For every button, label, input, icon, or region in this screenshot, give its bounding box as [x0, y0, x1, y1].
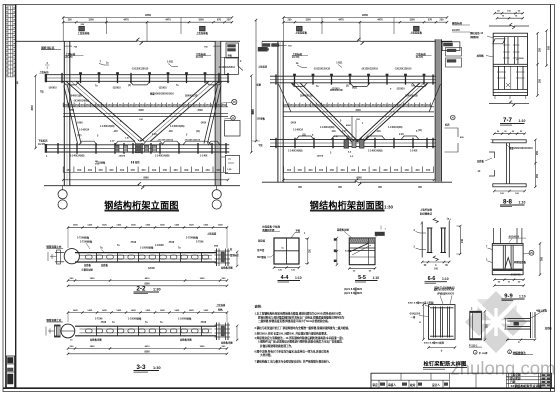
detail 6-6 outer verticals with breaks	[421, 222, 423, 258]
view1 left vertical dim	[35, 76, 37, 148]
svg-text:2-75X6: 2-75X6	[196, 241, 204, 243]
svg-text:-140X: -140X	[77, 122, 84, 125]
svg-text:450: 450	[362, 168, 367, 172]
svg-text:7.钢结构施工 应与相关专业密切配合进行, 并严格按现行规范: 7.钢结构施工 应与相关专业密切配合进行, 并严格按现行规范执行。	[255, 359, 332, 363]
view1 top dimension line 2	[63, 21, 232, 23]
detail 8-8 left angle marks	[489, 152, 495, 158]
svg-text:1:10: 1:10	[373, 276, 380, 280]
svg-text:450: 450	[200, 103, 205, 107]
svg-text:250: 250	[288, 19, 293, 22]
view2 right column	[434, 39, 436, 181]
svg-text:-140: -140	[113, 130, 118, 133]
svg-text:-6X160X6: -6X160X6	[510, 274, 521, 277]
svg-text:9-9: 9-9	[504, 293, 513, 299]
svg-text:1-140X14(N2): 1-140X14(N2)	[288, 150, 303, 153]
bottom-left stamp box	[7, 356, 15, 388]
svg-text:450: 450	[308, 168, 313, 172]
svg-text:钢结构桁架立面图: 钢结构桁架立面图	[104, 199, 178, 210]
svg-text:450: 450	[77, 168, 82, 172]
detail 4-4 box	[274, 238, 299, 264]
view1 right J flag	[238, 59, 243, 71]
svg-text:(两侧同): (两侧同)	[470, 35, 479, 39]
view2 right overhang box	[442, 42, 460, 51]
svg-text:450: 450	[420, 103, 425, 107]
view2 top small label box right	[414, 26, 420, 31]
svg-text:校对: 校对	[410, 383, 416, 387]
svg-text:1425: 1425	[160, 309, 166, 312]
svg-text:1425: 1425	[174, 224, 180, 227]
svg-text:450: 450	[387, 103, 392, 107]
detail 9-9 bottom dims	[495, 279, 524, 281]
svg-text:450: 450	[178, 103, 183, 107]
view1 top dimension line 1	[63, 17, 232, 19]
svg-text:Φ14@200: Φ14@200	[410, 313, 421, 316]
svg-text:2-75X6: 2-75X6	[95, 319, 103, 321]
svg-text:钢管混凝土柱: 钢管混凝土柱	[46, 245, 62, 249]
svg-text:450: 450	[319, 168, 324, 172]
detail 7-7 inner webs upper	[504, 37, 506, 65]
svg-text:450: 450	[88, 168, 93, 172]
view1 extra web labels	[95, 85, 188, 138]
view2 top dimension line 1	[284, 17, 448, 19]
detail 8-8 top flange	[493, 140, 526, 143]
svg-text:上弦标高: 上弦标高	[39, 70, 49, 74]
svg-text:450: 450	[184, 168, 189, 172]
small detail B leader and labels	[531, 309, 546, 318]
svg-text:1-100X6: 1-100X6	[155, 245, 164, 247]
svg-text:1425: 1425	[160, 224, 166, 227]
svg-text:250: 250	[539, 47, 542, 52]
svg-text:870: 870	[428, 19, 433, 22]
svg-text:1-B21: 1-B21	[336, 63, 343, 65]
detail 4-4 right bracket dim	[305, 239, 309, 264]
svg-text:-1X125X125X10: -1X125X125X10	[131, 69, 149, 71]
svg-text:1425: 1425	[189, 309, 195, 312]
view1 bottom chord	[45, 144, 229, 146]
svg-text:并做好除锈等防腐处理工作。: 并做好除锈等防腐处理工作。	[260, 344, 294, 348]
detail 3-3 right end plates	[216, 323, 218, 341]
svg-text:-140: -140	[168, 130, 173, 133]
svg-text:450: 450	[156, 103, 161, 107]
svg-text:下弦标高: 下弦标高	[38, 139, 48, 143]
svg-text:450: 450	[113, 103, 118, 107]
svg-text:450: 450	[194, 103, 199, 107]
detail 7-7 top break line	[489, 25, 511, 27]
detail 2-2 right end plates	[216, 249, 218, 267]
view1 top chord stiffener marks	[79, 72, 206, 74]
svg-text:450: 450	[298, 168, 303, 172]
svg-text:450: 450	[124, 103, 129, 107]
svg-text:23.470: 23.470	[416, 56, 424, 59]
svg-text:450: 450	[205, 168, 210, 172]
svg-text:两侧加劲板: 两侧加劲板	[514, 260, 527, 264]
view2 big V right branch	[363, 83, 428, 142]
detail 2-2 bottom dim line	[68, 280, 227, 282]
svg-text:加劲板: 加劲板	[476, 54, 485, 58]
view1 right column	[214, 41, 216, 185]
svg-text:1:30: 1:30	[153, 287, 161, 291]
svg-text:450: 450	[295, 103, 300, 107]
detail 5-5 left dim	[336, 238, 338, 265]
view2 bottom chord gussets	[296, 136, 314, 140]
view1 top chord gussets	[63, 81, 79, 85]
svg-text:1:10: 1:10	[519, 119, 526, 123]
svg-text:6.图中注明:所有尺寸单位均为毫米,标高单位一律为米,具体详: 6.图中注明:所有尺寸单位均为毫米,标高单位一律为米,具体详见各	[255, 349, 330, 353]
detail 4-4 top-right flags	[291, 233, 300, 239]
svg-text:250: 250	[539, 78, 542, 83]
svg-text:4410: 4410	[145, 345, 151, 348]
svg-text:1:10: 1:10	[519, 294, 526, 298]
view1 right middle open box	[225, 57, 239, 74]
svg-text:3-3: 3-3	[136, 364, 146, 371]
view1 left chord end plates	[45, 74, 47, 82]
detail 9-9 right dim	[539, 244, 541, 275]
notes text block	[255, 304, 351, 364]
detail 7-7 right dim	[537, 33, 539, 95]
svg-text:5-5: 5-5	[358, 275, 366, 281]
view2 column top ticks	[278, 44, 287, 46]
detail 3-3 top dimension line	[68, 312, 227, 314]
svg-text:1-140X: 1-140X	[200, 155, 208, 158]
detail 2-2 extra labels above	[117, 242, 175, 247]
view2 big V left branch	[292, 83, 352, 142]
svg-text:1500: 1500	[409, 19, 415, 22]
stud detail bottom dim	[429, 347, 456, 349]
svg-text:1-B: 1-B	[334, 136, 338, 138]
svg-text:2-20: 2-20	[342, 131, 347, 133]
svg-text:23.470: 23.470	[292, 56, 300, 59]
detail 5-5 inner lines	[349, 247, 375, 249]
svg-text:450: 450	[98, 168, 103, 172]
svg-text:1:25: 1:25	[227, 169, 232, 171]
view1 dim extension verticals	[62, 18, 64, 42]
svg-text:-75X6: -75X6	[168, 242, 175, 244]
svg-text:9360: 9360	[143, 176, 149, 179]
svg-text:1850: 1850	[90, 278, 96, 280]
svg-text:450: 450	[360, 103, 365, 107]
view1 slab lines	[63, 112, 228, 114]
svg-text:-125X10: -125X10	[396, 89, 405, 91]
svg-text:450: 450	[167, 103, 172, 107]
svg-text:1850: 1850	[90, 346, 96, 348]
svg-text:450: 450	[195, 168, 200, 172]
small detail A right dim	[484, 311, 486, 340]
svg-text:2.钢柱与桁架弦杆的工厂拼接焊缝均为全熔透一级焊缝,现场拼接: 2.钢柱与桁架弦杆的工厂拼接焊缝均为全熔透一级焊缝,现场拼接焊缝为二级并检验。	[255, 326, 351, 330]
svg-text:两侧同平焊: 两侧同平焊	[262, 228, 275, 232]
svg-text:250: 250	[440, 19, 445, 22]
svg-text:870: 870	[217, 19, 222, 22]
svg-text:450: 450	[383, 168, 388, 172]
small detail B right vertical member	[530, 312, 532, 338]
stud detail rebars	[434, 307, 450, 338]
detail 2-2 total dim	[68, 285, 227, 287]
svg-text:450: 450	[131, 168, 136, 172]
svg-text:-75X6: -75X6	[200, 322, 207, 324]
detail 7-7 lower box	[498, 66, 500, 89]
svg-text:450: 450	[306, 103, 311, 107]
detail 3-3 beam slots	[86, 329, 209, 333]
svg-text:450: 450	[96, 103, 101, 107]
svg-text:1425: 1425	[145, 309, 151, 312]
view1 top small label box left	[79, 26, 85, 31]
view1 diagonal brace left long	[66, 81, 135, 141]
svg-text:-140X8: -140X8	[316, 155, 324, 158]
small detail B bottom dim	[507, 339, 535, 341]
svg-text:450: 450	[216, 103, 221, 107]
svg-text:(4)21: (4)21	[352, 87, 358, 90]
detail 6-6 bottom dims	[422, 261, 449, 263]
left frame column lines	[5, 5, 7, 389]
detail 3-3 left end circle	[61, 324, 75, 338]
view2 extra web labels	[312, 86, 418, 138]
svg-text:1-140X14(N2): 1-140X14(N2)	[155, 155, 170, 158]
svg-text:450: 450	[393, 103, 398, 107]
svg-text:1-140X14(N1): 1-140X14(N1)	[170, 125, 185, 128]
view1 top chord	[45, 74, 229, 76]
svg-text:1:30: 1:30	[384, 205, 394, 210]
svg-text:250: 250	[536, 173, 539, 178]
svg-text:1850: 1850	[200, 346, 206, 348]
svg-text:450: 450	[415, 103, 420, 107]
svg-text:450: 450	[102, 103, 107, 107]
view2 top-left label blobs	[263, 44, 271, 47]
detail 7-7 outer right dim	[546, 31, 548, 66]
svg-text:450: 450	[327, 103, 332, 107]
small detail A circle label	[473, 350, 477, 354]
svg-text:4410: 4410	[145, 277, 151, 280]
svg-text:-1X125X125X10: -1X125X125X10	[184, 140, 201, 142]
svg-text:屋面标高: 屋面标高	[452, 21, 463, 25]
svg-text:5.钢构件出厂前,必须按设计图纸进行预拼装,检验合格后方可出: 5.钢构件出厂前,必须按设计图纸进行预拼装,检验合格后方可出厂安装就位,	[258, 340, 343, 344]
svg-text:-140: -140	[376, 130, 381, 133]
view2 slab lines	[284, 111, 435, 113]
svg-text:1425: 1425	[87, 309, 93, 312]
svg-text:8-8: 8-8	[503, 198, 513, 205]
svg-text:300: 300	[541, 256, 544, 261]
view1 diagonal brace right steep	[208, 86, 222, 144]
view2 corner diagonal right	[429, 84, 441, 112]
svg-text:1:30: 1:30	[153, 366, 161, 370]
svg-text:450: 450	[64, 103, 69, 107]
svg-text:设计人: 设计人	[432, 383, 440, 387]
svg-text:450: 450	[317, 103, 322, 107]
svg-text:栓钉梁配筋大样图: 栓钉梁配筋大样图	[423, 360, 466, 368]
view2 corner diagonal left	[279, 84, 292, 112]
svg-text:(11): (11)	[418, 130, 422, 132]
svg-text:1850: 1850	[200, 278, 206, 280]
svg-text:-1X125X125X10: -1X125X125X10	[313, 69, 331, 71]
svg-text:2-20: 2-20	[399, 134, 404, 136]
svg-text:1500: 1500	[305, 19, 311, 22]
view2 top small label box left	[297, 26, 303, 31]
svg-text:1-140X14(N1): 1-140X14(N1)	[100, 125, 115, 128]
detail 2-2 beam slots	[86, 255, 209, 259]
svg-text:1500: 1500	[88, 19, 94, 22]
view2 right outside labels	[446, 48, 462, 57]
svg-text:250: 250	[70, 109, 75, 112]
svg-text:450: 450	[322, 103, 327, 107]
svg-text:(4)21 8.8级M20: (4)21 8.8级M20	[344, 287, 363, 291]
svg-text:4500: 4500	[31, 105, 34, 111]
svg-text:2-2: 2-2	[136, 285, 146, 292]
svg-text:6c454: 6c454	[345, 249, 352, 252]
detail 2-2 left end circle	[64, 249, 79, 264]
svg-text:(11): (11)	[196, 131, 200, 133]
detail 9-9 main box	[492, 244, 523, 275]
svg-text:9360: 9360	[145, 13, 151, 17]
view1 diagonal brace right long	[150, 81, 219, 141]
svg-text:钢柱加劲-16: 钢柱加劲-16	[470, 31, 484, 35]
svg-text:-125X10: -125X10	[331, 89, 340, 91]
svg-text:450: 450	[140, 103, 145, 107]
svg-text:450: 450	[394, 168, 399, 172]
view1 bottom total dim	[63, 179, 228, 181]
svg-text:-125X10: -125X10	[158, 88, 167, 90]
svg-text:450: 450	[120, 168, 125, 172]
svg-text:450: 450	[152, 168, 157, 172]
svg-text:450: 450	[338, 103, 343, 107]
detail 2-2 beam body	[75, 252, 217, 254]
svg-text:450: 450	[289, 103, 294, 107]
svg-text:450: 450	[376, 103, 381, 107]
title block texts	[373, 373, 522, 387]
svg-text:钢结构桁架剖面图: 钢结构桁架剖面图	[310, 199, 384, 210]
detail 6-6 left channel	[427, 228, 429, 253]
detail 7-7 main box	[493, 33, 527, 95]
svg-text:450: 450	[355, 103, 360, 107]
svg-text:19.470: 19.470	[38, 143, 46, 146]
small detail A box	[470, 311, 482, 340]
svg-text:1500: 1500	[198, 19, 204, 22]
svg-text:9360: 9360	[144, 350, 150, 353]
svg-text:-140: -140	[331, 130, 336, 133]
svg-text:4470: 4470	[338, 19, 344, 22]
svg-text:1425: 1425	[102, 224, 108, 227]
svg-text:450: 450	[344, 103, 349, 107]
svg-text:250: 250	[68, 19, 73, 22]
svg-text:500: 500	[547, 45, 550, 50]
detail 6-6 right channel	[441, 228, 443, 253]
view2 bottom dim string	[284, 171, 435, 173]
svg-text:1425: 1425	[87, 224, 93, 227]
detail 5-5 box	[349, 238, 375, 265]
view2 roofline with break	[262, 40, 359, 42]
svg-text:120X8: 120X8	[148, 268, 155, 270]
svg-text:450: 450	[134, 103, 139, 107]
view2 apex gusset cluster	[344, 140, 349, 149]
detail 7-7 bottom ticks	[495, 96, 526, 100]
detail 5-5 hatched top band	[349, 238, 375, 243]
svg-text:-1X125X125X10: -1X125X125X10	[395, 69, 413, 71]
detail 7-7 weld plate parallelogram	[493, 39, 505, 44]
svg-text:1-140X14: 1-140X14	[293, 129, 304, 132]
svg-text:5: 5	[17, 81, 19, 85]
svg-text:1500: 1500	[355, 109, 361, 112]
svg-text:450: 450	[66, 168, 71, 172]
svg-text:1-140X14(N1): 1-140X14(N1)	[388, 126, 403, 129]
detail 7-7 bolt dashes	[497, 45, 525, 78]
svg-text:450: 450	[205, 103, 210, 107]
svg-text:450: 450	[129, 103, 134, 107]
view2 left vertical dim	[255, 20, 257, 141]
svg-text:450: 450	[162, 103, 167, 107]
svg-text:7-7: 7-7	[503, 117, 513, 124]
svg-text:450: 450	[163, 168, 168, 172]
detail 2-2 top dimension line	[68, 226, 227, 228]
svg-text:1425: 1425	[73, 309, 79, 312]
detail 8-8 bottom flange	[493, 184, 526, 187]
detail 5-5 bottom dim	[349, 267, 375, 269]
svg-text:1425: 1425	[116, 309, 122, 312]
svg-text:-125X10: -125X10	[112, 88, 121, 90]
svg-text:-140X: -140X	[290, 122, 297, 125]
svg-text:1425: 1425	[189, 224, 195, 227]
svg-text:4500: 4500	[346, 124, 352, 127]
svg-text:-6X160X6: -6X160X6	[508, 235, 520, 238]
view1 bottom boundary line with break	[44, 185, 139, 187]
svg-text:二级焊缝,焊缝高度见图,焊缝高度不得小于6mm并经检验合格。: 二级焊缝,焊缝高度见图,焊缝高度不得小于6mm并经检验合格。	[258, 319, 330, 323]
svg-text:日期: 日期	[510, 380, 516, 384]
view2 top dimension line 2	[284, 21, 448, 23]
svg-text:450: 450	[287, 168, 292, 172]
detail 7-7 top dims	[495, 12, 523, 14]
svg-text:焊接材料应与母材强度相匹配并具有出厂合格证,焊缝质量等级除注: 焊接材料应与母材强度相匹配并具有出厂合格证,焊缝质量等级除注明外均为	[258, 315, 345, 319]
svg-text:450: 450	[141, 168, 146, 172]
detail 9-9 column stubs above	[494, 228, 522, 244]
detail 9-9 inner webs	[502, 245, 504, 268]
svg-text:上弦杆加劲: 上弦杆加劲	[420, 208, 433, 212]
view2 apex verticals	[351, 116, 353, 139]
svg-text:3.栓钉Φ19, 栓钉长度100, 间距200,: 3.栓钉Φ19, 栓钉长度100, 间距200, 并应满足现行规范构造要求。	[255, 331, 330, 335]
svg-text:钢管混凝土柱: 钢管混凝土柱	[46, 318, 62, 322]
svg-text:450: 450	[74, 103, 79, 107]
view2 dim extension verticals	[283, 18, 285, 42]
svg-text:1-140X14(N1): 1-140X14(N1)	[320, 126, 335, 129]
svg-text:2-20: 2-20	[110, 141, 115, 143]
view2 mid dimension string	[284, 106, 435, 108]
svg-text:1425: 1425	[116, 224, 122, 227]
detail 3-3 left connector plates	[55, 325, 57, 337]
detail 9-9 right bubble	[529, 250, 534, 255]
svg-text:450: 450	[333, 103, 338, 107]
svg-text:(2): (2)	[346, 86, 349, 88]
svg-text:450: 450	[109, 168, 114, 172]
small detail B circle label	[508, 350, 512, 354]
svg-text:说明:: 说明:	[255, 304, 262, 309]
detail 3-3 bottom dim line	[68, 348, 227, 350]
svg-text:审核人: 审核人	[388, 383, 396, 387]
view1 apex gusset cluster	[115, 145, 119, 152]
svg-text:1500: 1500	[197, 109, 203, 112]
svg-text:9360: 9360	[362, 13, 368, 17]
view1 bottom dim string	[63, 171, 228, 173]
stud detail main rect	[429, 305, 456, 340]
svg-text:450: 450	[189, 103, 194, 107]
svg-text:23.470: 23.470	[196, 56, 204, 59]
svg-text:450: 450	[300, 103, 305, 107]
svg-text:P 150 1: P 150 1	[469, 344, 478, 347]
svg-text:-75X6: -75X6	[100, 322, 107, 324]
svg-text:4-4: 4-4	[281, 275, 289, 281]
svg-text:-140X8: -140X8	[118, 155, 126, 158]
svg-text:XX钢结构桁架节点详图: XX钢结构桁架节点详图	[511, 383, 542, 388]
view1 right circled mark	[232, 99, 237, 104]
svg-text:上弦连接板: 上弦连接板	[78, 31, 91, 35]
svg-text:-1X125X125X10: -1X125X125X10	[361, 69, 379, 71]
svg-text:450: 450	[118, 103, 123, 107]
svg-text:1:10: 1:10	[519, 200, 526, 204]
svg-text:4.焊接残余应力消除做法... 10.所有钢构件除锈: 4.焊接残余应力消除做法... 10.所有钢构件除锈后刷防锈漆两道(车间底漆一度…	[255, 336, 344, 340]
